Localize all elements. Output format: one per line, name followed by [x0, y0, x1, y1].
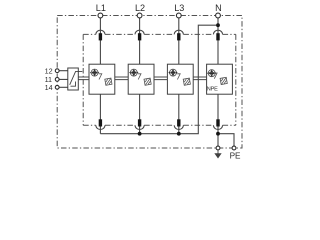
svg-text:PE: PE [230, 152, 241, 161]
svg-text:N: N [215, 3, 222, 13]
svg-text:NPE: NPE [207, 86, 218, 92]
svg-text:12: 12 [45, 66, 53, 75]
svg-text:L3: L3 [174, 3, 184, 13]
svg-text:14: 14 [45, 83, 53, 92]
svg-text:L1: L1 [96, 3, 106, 13]
svg-text:L2: L2 [135, 3, 145, 13]
